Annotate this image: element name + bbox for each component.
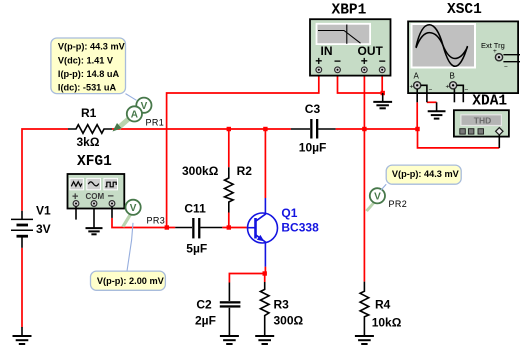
svg-text:PR2: PR2 <box>389 199 408 209</box>
svg-text:XFG1: XFG1 <box>77 154 112 170</box>
svg-text:I(p-p): 14.8 uA: I(p-p): 14.8 uA <box>58 69 120 79</box>
svg-text:R4: R4 <box>375 298 391 312</box>
svg-text:B: B <box>450 72 455 81</box>
svg-text:3V: 3V <box>36 222 51 236</box>
svg-text:I(dc): -531 uA: I(dc): -531 uA <box>58 83 117 93</box>
svg-text:V(dc): 1.41 V: V(dc): 1.41 V <box>58 56 114 66</box>
svg-text:XSC1: XSC1 <box>447 2 482 18</box>
svg-text:BC338: BC338 <box>281 221 319 235</box>
svg-text:+: + <box>361 54 368 68</box>
svg-text:V: V <box>374 192 381 203</box>
svg-text:COM: COM <box>86 192 105 201</box>
svg-text:V(p-p): 2.00 mV: V(p-p): 2.00 mV <box>97 276 165 286</box>
svg-text:V(p-p): 44.3 mV: V(p-p): 44.3 mV <box>392 169 460 179</box>
svg-text:R2: R2 <box>237 164 253 178</box>
svg-text:XBP1: XBP1 <box>332 3 367 19</box>
svg-text:+: + <box>446 84 450 91</box>
svg-text:300Ω: 300Ω <box>274 314 304 328</box>
svg-text:V1: V1 <box>36 204 51 218</box>
svg-text:10µF: 10µF <box>299 141 327 155</box>
svg-text:5µF: 5µF <box>186 242 207 256</box>
svg-text:C3: C3 <box>305 102 321 116</box>
svg-text:2µF: 2µF <box>195 314 216 328</box>
svg-text:−: − <box>334 54 341 68</box>
svg-text:−: − <box>429 87 433 94</box>
svg-text:V(p-p): 44.3 mV: V(p-p): 44.3 mV <box>58 42 126 52</box>
svg-text:+: + <box>315 54 322 68</box>
svg-text:THD: THD <box>474 116 491 126</box>
svg-text:R3: R3 <box>274 298 290 312</box>
svg-text:−: − <box>379 54 386 68</box>
svg-text:Q1: Q1 <box>281 206 297 220</box>
svg-text:3kΩ: 3kΩ <box>77 135 100 149</box>
svg-text:XDA1: XDA1 <box>472 94 507 110</box>
svg-text:PR3: PR3 <box>147 216 166 226</box>
svg-text:A: A <box>131 110 138 121</box>
svg-text:PR1: PR1 <box>146 118 165 128</box>
svg-text:C11: C11 <box>184 202 206 216</box>
svg-text:+: + <box>410 84 414 91</box>
svg-text:+: + <box>493 48 497 55</box>
svg-text:C2: C2 <box>196 298 212 312</box>
svg-text:10kΩ: 10kΩ <box>372 316 402 330</box>
svg-text:−: − <box>504 64 508 71</box>
svg-text:V: V <box>130 203 137 214</box>
svg-text:A: A <box>414 72 420 81</box>
svg-text:−: − <box>465 87 469 94</box>
svg-text:R1: R1 <box>81 106 97 120</box>
svg-text:300kΩ: 300kΩ <box>182 164 219 178</box>
